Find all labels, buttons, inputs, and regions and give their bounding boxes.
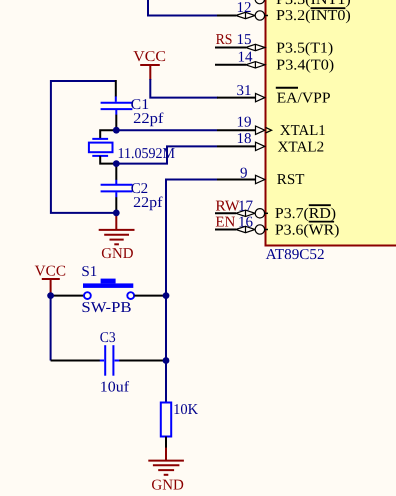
capacitor C2 (101, 164, 163, 213)
pin 17 P3.7(RD) (215, 198, 336, 222)
node junction C3/RST wire (163, 357, 170, 364)
svg-text:GND: GND (101, 246, 133, 262)
node junction VCC/switch/C3 branch (47, 292, 54, 299)
svg-text:18: 18 (237, 131, 252, 147)
wire gnd loop left (51, 81, 116, 213)
svg-text:P3.3(INT1): P3.3(INT1) (276, 0, 351, 8)
pin 13 P3.3(INT1) (255, 0, 351, 8)
node junction C2/ground loop (113, 210, 120, 217)
svg-text:C3: C3 (100, 330, 116, 346)
node junction switch/RST (163, 292, 170, 299)
svg-text:RS: RS (216, 32, 233, 48)
ground GND symbol under C2 (99, 214, 135, 262)
svg-text:14: 14 (238, 49, 254, 65)
capacitor C1 (101, 80, 164, 130)
wire RST net (166, 180, 217, 403)
wire XTAL2 net (116, 146, 217, 163)
svg-text:VCC: VCC (133, 49, 166, 65)
pin 16 P3.6(WR) (215, 215, 339, 239)
svg-text:RST: RST (277, 172, 305, 188)
svg-text:9: 9 (240, 165, 248, 181)
ground GND symbol bottom (148, 448, 184, 494)
pin 18 XTAL2 (217, 131, 324, 156)
svg-text:EA/VPP: EA/VPP (277, 90, 331, 106)
power VCC symbol top (133, 49, 166, 80)
pin 9 RST (217, 165, 304, 188)
wire VCC to pin 31 (150, 79, 218, 98)
svg-text:GND: GND (151, 478, 184, 494)
svg-text:19: 19 (237, 115, 252, 131)
svg-text:15: 15 (237, 32, 252, 48)
svg-text:22pf: 22pf (133, 111, 163, 127)
svg-text:XTAL1: XTAL1 (280, 123, 326, 139)
crystal Y1 11.0592M (89, 130, 175, 163)
svg-text:RW: RW (215, 198, 240, 214)
svg-text:VCC: VCC (35, 264, 66, 280)
svg-text:12: 12 (237, 0, 252, 16)
switch S1 SW-PB (81, 264, 134, 316)
svg-text:P3.2(INT0): P3.2(INT0) (276, 8, 351, 24)
pin 19 XTAL1 (217, 115, 326, 139)
svg-text:16: 16 (238, 215, 254, 231)
svg-text:17: 17 (238, 198, 254, 214)
pin 14 P3.4(T0) (215, 49, 334, 73)
capacitor C3 (51, 330, 166, 396)
svg-text:S1: S1 (81, 264, 97, 280)
pin 31 EA/VPP (217, 83, 331, 107)
svg-text:P3.6(WR): P3.6(WR) (275, 223, 340, 239)
svg-text:SW-PB: SW-PB (81, 300, 131, 316)
wire switch right (134, 295, 166, 297)
svg-text:10uf: 10uf (100, 380, 129, 396)
pin 15 P3.5(T1) (215, 32, 333, 56)
resistor R1 10K (161, 402, 198, 448)
svg-text:31: 31 (237, 83, 252, 99)
power VCC symbol lower left (35, 264, 66, 294)
svg-text:P3.7(RD): P3.7(RD) (275, 206, 336, 222)
wire INT0 net from top (148, 0, 217, 16)
wire VCC branch down to C3 (50, 296, 52, 361)
svg-text:22pf: 22pf (133, 195, 162, 211)
svg-text:XTAL2: XTAL2 (278, 140, 325, 156)
IC U1 AT89C52 chip body (266, 0, 396, 246)
svg-text:P3.5(T1): P3.5(T1) (276, 40, 333, 56)
wire switch left (51, 295, 85, 297)
node junction C1/crystal/XTAL1 (113, 127, 120, 134)
svg-text:AT89C52: AT89C52 (266, 247, 325, 263)
svg-text:P3.4(T0): P3.4(T0) (276, 58, 334, 74)
pin 12 P3.2(INT0) (216, 0, 351, 24)
svg-text:10K: 10K (173, 402, 198, 418)
wire XTAL1 net (116, 129, 217, 131)
svg-text:EN: EN (215, 214, 235, 230)
node junction crystal/C2/XTAL2 (113, 160, 120, 167)
